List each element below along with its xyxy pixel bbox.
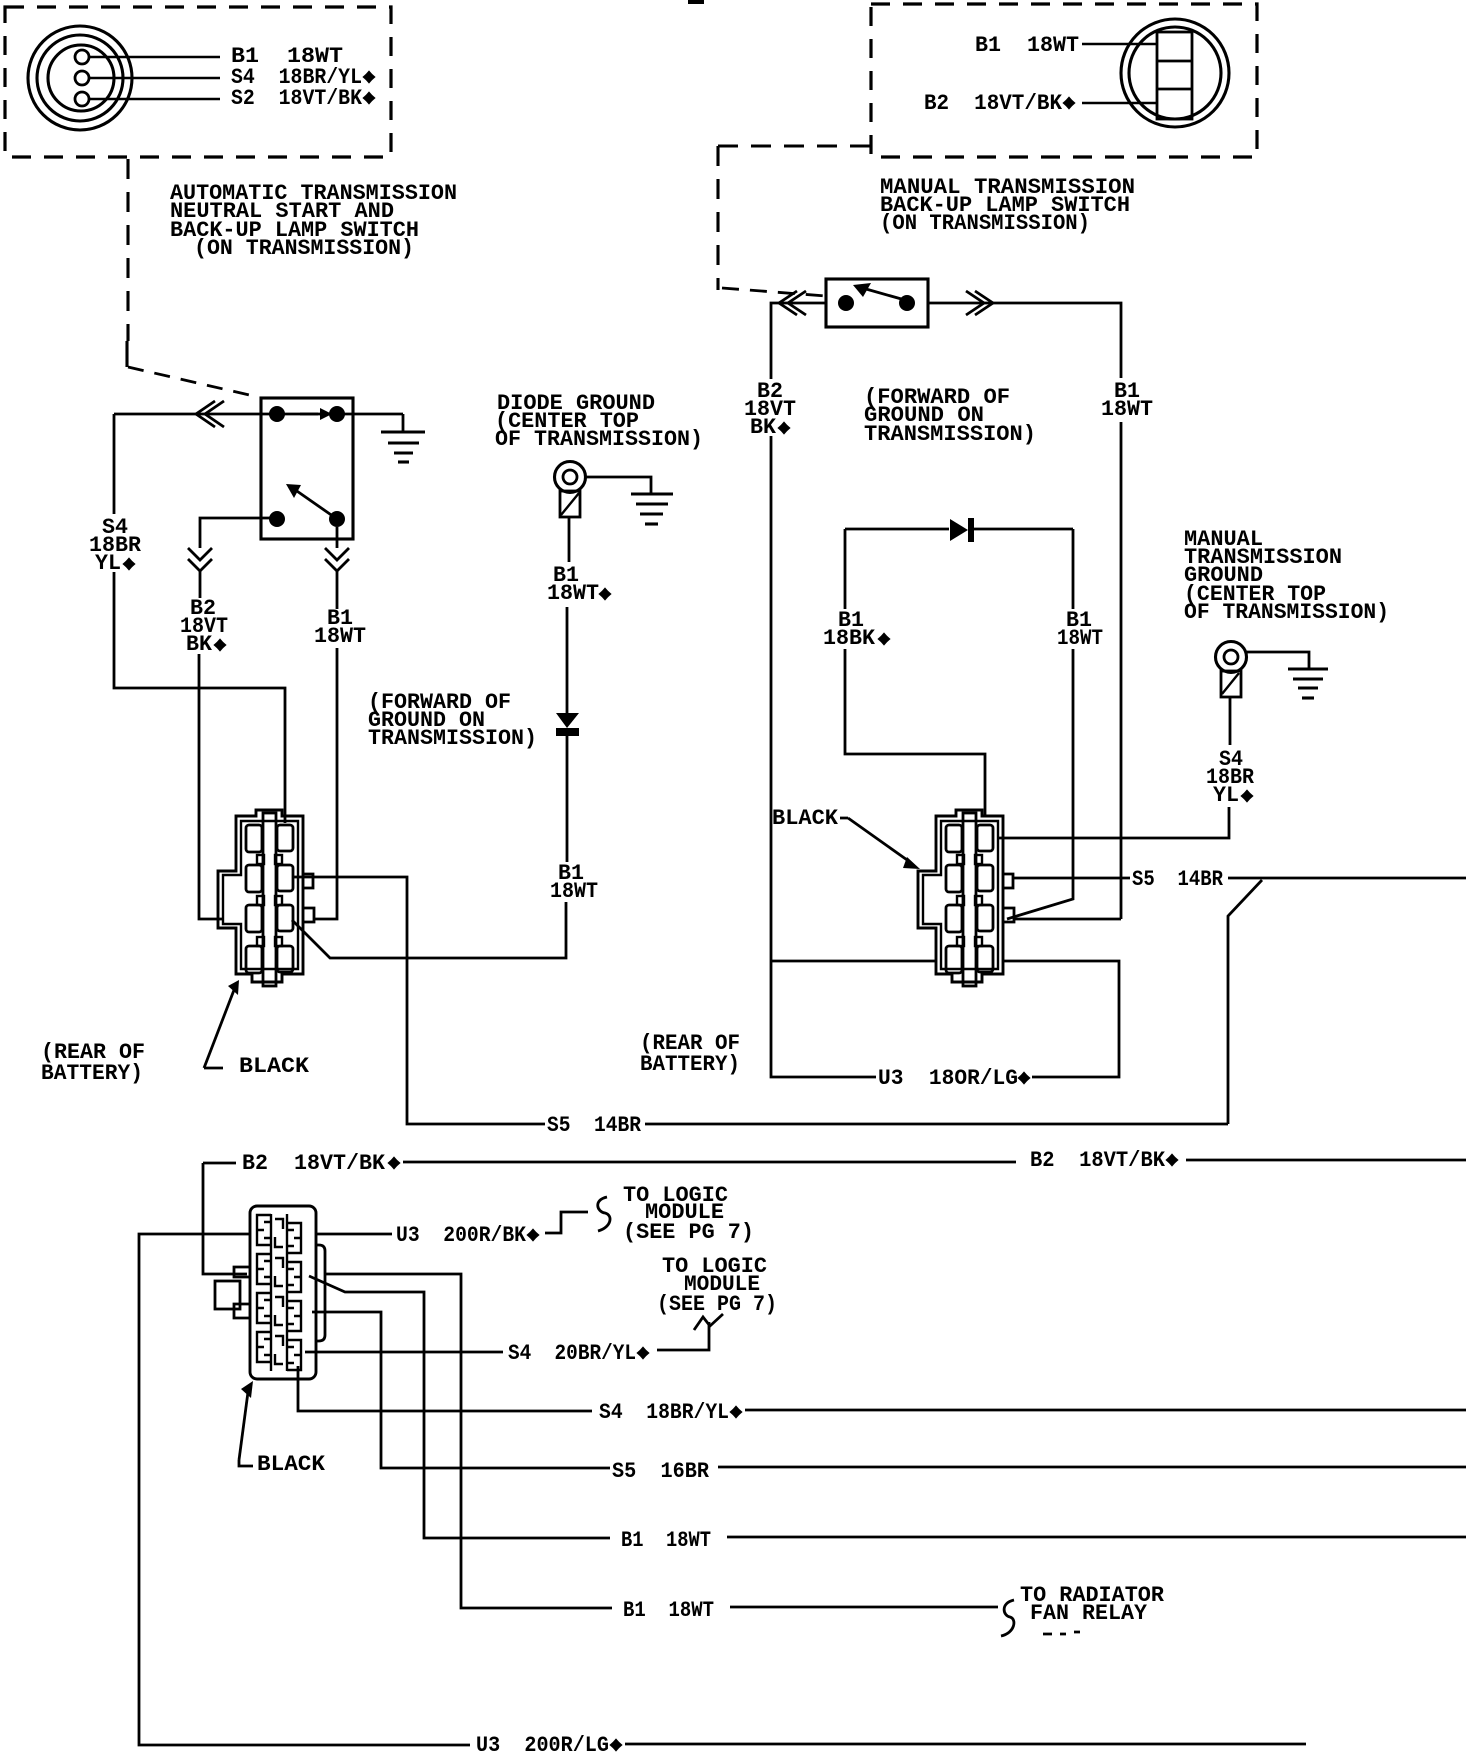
- ground G1 (right of S1): [381, 414, 425, 462]
- label forward-of-ground caption (right): [864, 385, 1036, 447]
- wire S4 18BR/YL manual ground to connector C2: [997, 698, 1230, 838]
- svg-text:(SEE PG 7): (SEE PG 7): [623, 1220, 754, 1245]
- svg-text:U3 200R/LG: U3 200R/LG: [476, 1733, 609, 1754]
- wire S4 18BR/YL row: [298, 1366, 1466, 1411]
- svg-text:B2 18VT/BK: B2 18VT/BK: [1030, 1148, 1166, 1173]
- svg-text:YL: YL: [1213, 783, 1239, 808]
- label wire B1 18WT (loop): [1057, 608, 1103, 651]
- label pin B2 18VT/BK (J2): [924, 91, 1157, 116]
- label wire B2 18VT/BK (auto): [180, 596, 228, 657]
- wire B1 from S2 right: [928, 303, 1121, 919]
- wire B1 18WT manual switch to connector C2 tab: [1015, 918, 1121, 921]
- label wire B1 18WT (diode branch at connector): [550, 861, 598, 904]
- svg-text:B1 18WT: B1 18WT: [623, 1598, 714, 1623]
- svg-text:(ON TRANSMISSION): (ON TRANSMISSION): [880, 211, 1090, 236]
- connector C2 (8-way, rear of battery, manual): [918, 810, 1014, 986]
- svg-text:OF TRANSMISSION): OF TRANSMISSION): [1184, 600, 1389, 625]
- wire dashed leader from J2 to switch S2: [718, 146, 870, 296]
- chevron splice on B2 wire: [188, 548, 212, 571]
- svg-text:18WT: 18WT: [1101, 397, 1153, 422]
- label forward-of-ground caption (left): [368, 690, 537, 751]
- svg-text:U3 200R/BK: U3 200R/BK: [396, 1223, 527, 1248]
- label wire B2 18VT/BK (manual): [744, 379, 796, 440]
- wire S5 14BR net: [293, 877, 1466, 1124]
- label pin S4 18BR/YL: [231, 65, 376, 90]
- connector J2 dashed enclosure (manual transmission switch): [871, 4, 1257, 157]
- label to logic module (2): [657, 1254, 777, 1317]
- svg-text:S5 14BR: S5 14BR: [547, 1113, 642, 1138]
- connector J1 face (3-pin round connector): [28, 26, 132, 130]
- svg-text:S2 18VT/BK: S2 18VT/BK: [231, 86, 363, 111]
- svg-text:BK: BK: [750, 415, 777, 440]
- svg-text:(SEE PG 7): (SEE PG 7): [657, 1292, 777, 1317]
- svg-text:BATTERY): BATTERY): [41, 1061, 143, 1086]
- wire S1 top feed: [114, 413, 403, 416]
- label automatic transmission switch caption: [170, 181, 457, 261]
- diode D1: [556, 713, 579, 736]
- wire B1 18WT from S1 lower-right: [314, 527, 337, 919]
- label wire S4 18BR/YL (manual): [1206, 747, 1255, 808]
- label manual transmission switch caption: [880, 175, 1135, 236]
- chevron splice on B1 wire: [325, 548, 349, 571]
- label (REAR OF BATTERY) left: [41, 1040, 145, 1086]
- wire B1 18WT diode branch lower into connector C1: [292, 736, 567, 958]
- wire pin B1 leader: [89, 56, 220, 58]
- label manual transmission ground caption: [1184, 527, 1389, 625]
- wire B2 18VT/BK from S1 lower-left: [199, 518, 277, 919]
- label U3 200R/LG*: [476, 1733, 623, 1754]
- diode D2: [950, 518, 974, 542]
- connector C3 (12-way black, below): [215, 1206, 325, 1379]
- label B2 18VT/BK (bottom left): [242, 1151, 401, 1176]
- wire B1 18BK loop left: [845, 529, 985, 815]
- wire U3 200R/BK to logic module: [316, 1197, 610, 1234]
- svg-text:BLACK: BLACK: [239, 1054, 310, 1079]
- label wire S4 18BR/YL: [89, 515, 142, 576]
- svg-text:TRANSMISSION): TRANSMISSION): [368, 726, 537, 751]
- label U3 200R/BK*: [396, 1223, 540, 1248]
- svg-text:YL: YL: [95, 551, 121, 576]
- svg-text:18WT: 18WT: [314, 624, 366, 649]
- connector J1 dashed enclosure (automatic transmission switch): [5, 7, 391, 157]
- svg-text:18WT: 18WT: [1057, 626, 1103, 651]
- label wire B1 18BK*: [823, 608, 891, 651]
- chevron in-line connector (left of S1): [196, 401, 224, 427]
- svg-text:FAN RELAY: FAN RELAY: [1030, 1601, 1148, 1626]
- label pin B1 18WT (J2): [975, 33, 1157, 58]
- svg-text:18WT: 18WT: [547, 581, 599, 606]
- wire pin S4 leader: [89, 77, 220, 79]
- label BLACK callout (C1): [204, 980, 310, 1079]
- wire U3 200R/LG bottom net: [139, 1234, 1306, 1745]
- label U3 18OR/LG*: [878, 1066, 1031, 1091]
- svg-text:U3 18OR/LG: U3 18OR/LG: [878, 1066, 1018, 1091]
- wire B2/U3 loop below connector C2: [771, 961, 1119, 1077]
- svg-text:B2 18VT/BK: B2 18VT/BK: [242, 1151, 386, 1176]
- label BLACK callout (C3): [239, 1381, 326, 1477]
- svg-text:18WT: 18WT: [550, 879, 598, 904]
- svg-text:BLACK: BLACK: [772, 806, 839, 831]
- svg-text:S4 18BR/YL: S4 18BR/YL: [599, 1400, 729, 1425]
- wire S5 16BR row: [312, 1312, 1466, 1468]
- svg-text:(ON TRANSMISSION): (ON TRANSMISSION): [194, 236, 414, 261]
- wire B1 18WT row 2 (to radiator fan relay): [325, 1274, 1080, 1636]
- wire dashed leader from J1 to switch S1: [127, 159, 258, 397]
- label wire B1 18WT (manual): [1101, 379, 1153, 422]
- connector J2 face (2-pin round connector): [1121, 19, 1229, 127]
- ground G3 (manual ground): [1247, 652, 1328, 698]
- switch S1 automatic neutral start switch: [261, 398, 353, 539]
- wire B2 from S2 left: [771, 303, 826, 961]
- wire B1 18WT diode branch upper: [567, 517, 569, 713]
- eyelet terminal E2 (manual ground): [1216, 642, 1247, 698]
- stray scan mark top edge: [688, 0, 704, 4]
- label wire B1 18WT (auto): [314, 606, 366, 649]
- svg-text:BK: BK: [186, 632, 213, 657]
- wire pin S2 leader: [89, 98, 220, 100]
- svg-text:TRANSMISSION): TRANSMISSION): [864, 422, 1036, 447]
- wire B2 18VT/BK bottom row: [203, 1160, 1466, 1274]
- label B2 18VT/BK (bottom right): [1030, 1148, 1179, 1173]
- wire B1 18WT loop right: [974, 529, 1073, 919]
- wire S4 20BR/YL to logic module: [305, 1314, 723, 1352]
- label to radiator fan relay: [1020, 1583, 1165, 1626]
- label BLACK callout (C2): [772, 806, 920, 869]
- label to logic module (1): [623, 1183, 754, 1245]
- switch S2 manual back-up lamp switch: [826, 279, 928, 327]
- svg-text:S4 20BR/YL: S4 20BR/YL: [508, 1341, 636, 1366]
- label wire B1 18WT*: [547, 563, 612, 606]
- svg-text:S5 16BR: S5 16BR: [612, 1459, 710, 1484]
- wire S4 18BR/YL from S1 feed down to connector C1: [114, 414, 285, 823]
- label diode ground caption: [495, 391, 703, 452]
- svg-text:B2 18VT/BK: B2 18VT/BK: [924, 91, 1063, 116]
- svg-text:18BK: 18BK: [823, 626, 876, 651]
- ground G2 (diode ground): [586, 477, 673, 524]
- label (REAR OF BATTERY) right: [640, 1031, 740, 1077]
- label pin S2 18VT/BK: [231, 86, 376, 111]
- svg-text:OF TRANSMISSION): OF TRANSMISSION): [495, 427, 703, 452]
- svg-text:BLACK: BLACK: [257, 1452, 326, 1477]
- connector C1 (8-way, rear of battery, automatic): [218, 810, 314, 986]
- svg-text:B1 18WT: B1 18WT: [621, 1528, 711, 1553]
- svg-text:B1 18WT: B1 18WT: [975, 33, 1079, 58]
- label S4 18BR/YL* (row): [599, 1400, 743, 1425]
- chevron in-line connector (left of S2): [779, 291, 806, 315]
- wire B1 18WT row 1 (from C3 via diagonal): [309, 1276, 1466, 1538]
- eyelet terminal E1 (diode ground): [555, 462, 586, 518]
- chevron in-line connector (right of S2): [966, 291, 993, 315]
- svg-text:BATTERY): BATTERY): [640, 1052, 740, 1077]
- label S4 20BR/YL*: [508, 1341, 650, 1366]
- svg-text:S5 14BR: S5 14BR: [1132, 867, 1224, 892]
